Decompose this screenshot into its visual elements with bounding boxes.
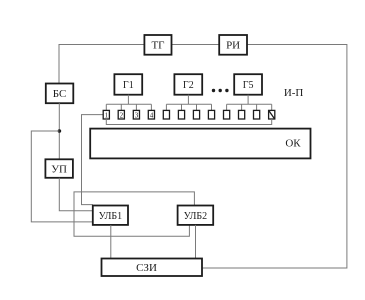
cell square 11 [254, 110, 260, 119]
svg-text:УП: УП [51, 163, 67, 175]
block TG [144, 35, 171, 55]
wire: junction left then down then right into ULB1 bottom-left [31, 131, 93, 222]
svg-text:И-П: И-П [284, 87, 304, 99]
wire: top-left corner from BS up-right to TG [59, 45, 144, 84]
svg-text:1: 1 [105, 112, 109, 120]
junction dot [58, 129, 62, 133]
wire: G2 riser and bus with 4 drops [166, 95, 211, 111]
wire: G1 riser and bus with 4 drops [106, 95, 151, 111]
wire: ULB2 bottom to SZI top [195, 225, 197, 259]
svg-text:Г2: Г2 [183, 80, 194, 91]
block G1 [114, 74, 142, 95]
wire: TG to RI [172, 44, 220, 46]
cell square 4 [148, 110, 154, 119]
svg-text:УЛБ2: УЛБ2 [184, 211, 207, 222]
svg-text:БС: БС [53, 88, 67, 100]
block RI [219, 35, 247, 55]
cell square 9 [224, 110, 230, 119]
block SZI [102, 259, 203, 277]
cell square 10 [239, 110, 245, 119]
cell square 1 [103, 110, 109, 119]
wire: ULB1 bottom to SZI top [110, 225, 112, 259]
cell square 3 [133, 110, 139, 119]
block ULB1 [93, 206, 128, 225]
wire: BS down through junction to UP [58, 103, 60, 159]
block BS [46, 84, 74, 104]
svg-text:4: 4 [150, 112, 154, 120]
svg-text:ТГ: ТГ [151, 40, 164, 52]
block OK [90, 129, 310, 159]
cell square 6 [178, 110, 184, 119]
ellipsis dots between G2 and G5 [212, 89, 229, 92]
wire: UP bottom down then right into ULB1 [59, 178, 93, 211]
cell square 2 [118, 110, 124, 119]
cell square 8 [208, 110, 214, 119]
svg-text:3: 3 [135, 112, 139, 120]
wire: ULB2 feedback loop (bottom to top via left side) [74, 192, 194, 236]
block UP [45, 159, 73, 178]
wire: feed to square 1 and down to ULB1 top [82, 115, 105, 205]
cell square 12 with diagonal [269, 110, 275, 119]
wire: G5 riser and bus with 4 drops [227, 95, 272, 111]
svg-text:УЛБ1: УЛБ1 [99, 211, 122, 222]
svg-text:2: 2 [120, 112, 124, 120]
wire: ring feedback below squares (square1 bottom to square12 bottom) [106, 119, 271, 125]
block ULB2 [178, 206, 214, 225]
cell square 7 [193, 110, 199, 119]
block G2 [174, 74, 202, 95]
wire: RI to right rail, down, and into SZI right side [202, 45, 347, 269]
block G5 [234, 74, 262, 95]
svg-text:ОК: ОК [285, 137, 301, 149]
svg-text:СЗИ: СЗИ [136, 262, 157, 274]
svg-text:Г5: Г5 [243, 80, 254, 91]
svg-text:Г1: Г1 [123, 80, 134, 91]
svg-text:РИ: РИ [226, 40, 240, 52]
cell square 5 [163, 110, 169, 119]
